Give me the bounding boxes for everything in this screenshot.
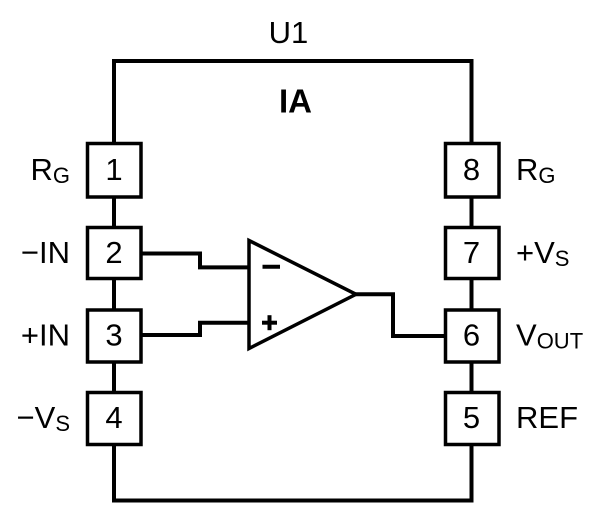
svg-text:+IN: +IN: [21, 318, 70, 353]
svg-text:4: 4: [105, 400, 122, 435]
svg-text:8: 8: [463, 152, 480, 187]
svg-text:−IN: −IN: [21, 235, 70, 270]
svg-text:U1: U1: [269, 15, 309, 50]
svg-text:3: 3: [105, 318, 122, 353]
svg-text:1: 1: [105, 152, 122, 187]
svg-text:7: 7: [463, 235, 480, 270]
svg-text:RG: RG: [516, 152, 556, 188]
svg-text:+VS: +VS: [516, 235, 569, 271]
svg-text:IA: IA: [279, 83, 312, 120]
svg-text:6: 6: [463, 318, 480, 353]
svg-text:VOUT: VOUT: [516, 318, 583, 354]
svg-text:−VS: −VS: [17, 400, 70, 436]
svg-text:RG: RG: [30, 152, 70, 188]
svg-text:REF: REF: [516, 400, 578, 435]
svg-text:5: 5: [463, 400, 480, 435]
svg-text:2: 2: [105, 235, 122, 270]
